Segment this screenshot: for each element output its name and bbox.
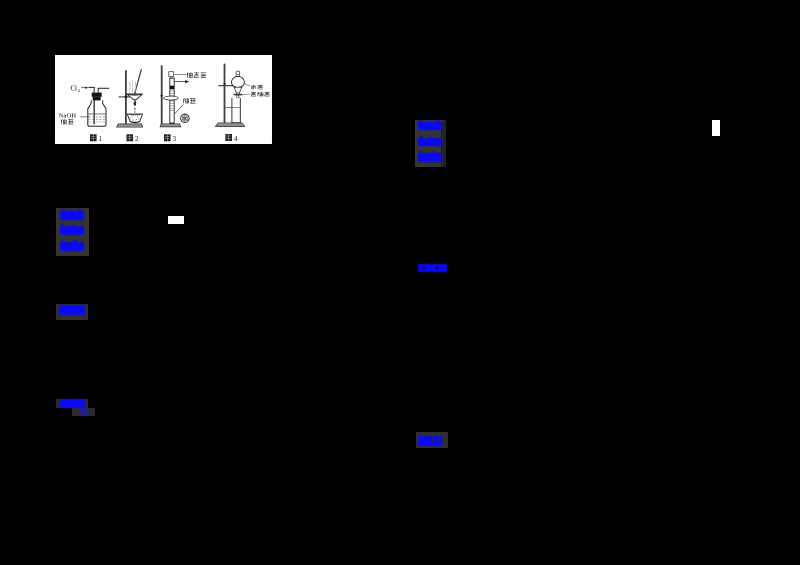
pointer from label to tube bottom: [175, 105, 184, 114]
svg-text:4: 4: [234, 135, 238, 143]
bottle body: [88, 100, 106, 126]
apparatus figure image (white panel with 4 lab setups): [55, 55, 272, 144]
left two-line formula background top: [56, 399, 88, 408]
stopcock: [236, 93, 239, 95]
steam wisps: [129, 80, 135, 94]
cotton spiral ball: [180, 114, 189, 123]
NaOH label pointer: [80, 116, 89, 118]
right formula group background darker strip: [441, 121, 447, 168]
arrow to inlet: [81, 87, 86, 89]
right formula blue bar 2: [418, 138, 442, 146]
right formula blue bar 1: [418, 122, 442, 131]
right formula group background: [415, 120, 445, 168]
label Cl2: [70, 85, 80, 93]
left two-line formula blue bar: [60, 399, 85, 408]
funnel: [127, 94, 142, 100]
funnel stopper knob: [236, 71, 240, 75]
caption fig 3: [164, 134, 177, 143]
stand base: [215, 123, 244, 127]
stand base: [116, 124, 142, 127]
left formula group background: [56, 208, 90, 256]
caption fig 2: [126, 134, 139, 143]
white panel background: [55, 55, 272, 144]
svg-text:1: 1: [98, 135, 102, 143]
thistle funnel: [169, 72, 174, 77]
receiving vessel: [232, 98, 240, 123]
right bottom formula blue text bar: [418, 436, 442, 446]
svg-text:Cl: Cl: [70, 85, 77, 92]
label youjiceng glyph blobs: [251, 92, 270, 97]
liquid level in vessel: [232, 106, 240, 108]
outlet tube: [98, 88, 109, 93]
left formula blue bar 2: [60, 226, 84, 235]
liquid surface: [88, 113, 106, 115]
side arm with arrow: [174, 81, 185, 83]
stand base: [160, 124, 181, 127]
funnel taper: [234, 87, 242, 93]
clamp knob: [124, 95, 127, 98]
label xiyansuan (dilute HCl) glyph blobs: [187, 72, 206, 78]
label shuiceng glyph blobs: [251, 85, 263, 90]
right single formula dark dot 1: [422, 266, 426, 271]
reaction tube: [170, 78, 174, 123]
right bottom formula background: [416, 432, 448, 448]
white answer blank (right): [712, 120, 720, 136]
clamp arm: [218, 85, 243, 87]
left formula blue bar 1: [60, 211, 84, 220]
left single formula background: [56, 304, 88, 321]
clamp arm: [118, 96, 129, 98]
white answer blank (left): [168, 216, 184, 224]
clamp arrow on rod: [160, 95, 163, 97]
clamp holder ellipse: [163, 96, 178, 100]
black stopper band on tube: [169, 86, 174, 90]
right single formula blue bar: [418, 264, 447, 273]
left formula blue bar 3: [60, 242, 84, 251]
lower clamp tick: [225, 106, 232, 108]
funnel bulb: [231, 77, 244, 88]
label line to xiyansuan: [173, 73, 185, 75]
stand rod: [125, 70, 127, 124]
leader to youjiceng (organic layer): [240, 94, 250, 95]
left two-line formula dark blue sub-bar: [80, 408, 88, 416]
svg-text:3: 3: [172, 135, 176, 143]
liquid dashes: [88, 117, 105, 122]
leader to shuiceng (water layer): [244, 83, 250, 86]
caption fig 4: [225, 134, 238, 143]
stand rod: [223, 64, 225, 123]
receiving dish: [127, 114, 142, 122]
rubber stopper: [91, 93, 101, 97]
label chunjian (soda ash) glyph blobs: [183, 98, 195, 103]
stand rod: [160, 65, 162, 124]
caption fig 1: [90, 134, 103, 143]
glass rod: [134, 69, 141, 96]
right formula blue bar 3: [418, 153, 443, 162]
droplet in stem: [133, 102, 135, 106]
svg-text:2: 2: [135, 135, 139, 143]
left two-line formula background bottom: [72, 408, 95, 416]
drips: [134, 108, 136, 113]
tube granule ticks: [170, 91, 173, 111]
left single formula blue bar: [59, 305, 85, 315]
funnel neck: [236, 75, 240, 77]
right single formula dark dot 2: [435, 266, 439, 271]
svg-text:NaOH: NaOH: [59, 113, 76, 120]
label rongye (solution) glyph blobs: [61, 119, 74, 124]
clamp arrowhead on rod: [223, 83, 226, 86]
funnel stem: [134, 100, 136, 106]
crystals in dish: [130, 116, 139, 122]
dip tube: [93, 93, 95, 125]
inlet tube: [88, 87, 94, 92]
